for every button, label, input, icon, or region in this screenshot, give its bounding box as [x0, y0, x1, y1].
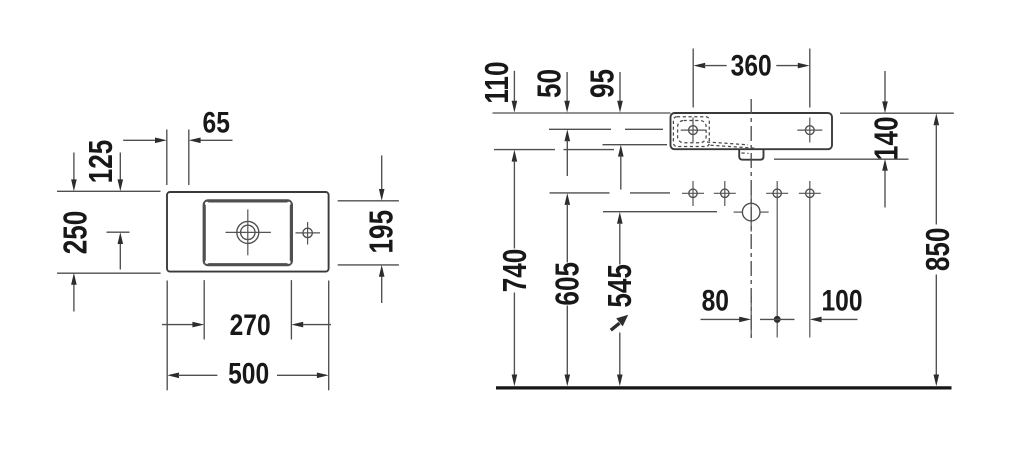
- dim 195 down arrow: [381, 155, 383, 189]
- rim level line left: [493, 112, 671, 114]
- svg-text:80: 80: [702, 283, 729, 317]
- dim 270 extension line B: [290, 280, 292, 339]
- dim 270 extension line A: [203, 280, 205, 339]
- tap crosshair vertical: [307, 222, 309, 245]
- dim 850 lower shaft and floor arrow: [935, 275, 937, 376]
- svg-text:500: 500: [228, 356, 269, 390]
- drain crosshair horizontal: [226, 231, 271, 233]
- dim 545 pointer arrow (diagonal): [611, 323, 620, 330]
- svg-text:605: 605: [550, 262, 587, 306]
- svg-text:545: 545: [602, 264, 639, 308]
- drain outer circle: [237, 221, 259, 243]
- bottom edge extension line left: [57, 272, 161, 274]
- svg-text:50: 50: [532, 69, 569, 98]
- dim 50 down arrow: [566, 72, 568, 102]
- centre line solid at 80 dim: [750, 296, 752, 338]
- dim 65 right arrow: [200, 139, 233, 141]
- tap hole left: circle: [689, 126, 698, 135]
- top edge extension line left: [57, 190, 161, 192]
- dim 605 lower shaft and floor arrow: [566, 306, 568, 376]
- fixing hole 2: [714, 192, 736, 194]
- fixing hole 4: [799, 192, 821, 194]
- hidden bowl bottom line lower (dashed): [711, 145, 756, 148]
- dim 65 extension line A: [166, 130, 168, 186]
- drain tube: [739, 149, 763, 160]
- rim level line right: [840, 112, 954, 114]
- hidden bowl outline inner (dashed): [678, 121, 707, 143]
- dim 100 arrow: [810, 317, 822, 323]
- hidden dash inside drain tube: [742, 152, 749, 154]
- dim 740 up arrow: [512, 150, 518, 162]
- dim 140 up arrow: [882, 159, 888, 171]
- bowl corner notches: [205, 202, 209, 206]
- tap hole right crosshair: [797, 129, 822, 131]
- hidden bowl outline outer (dashed): [673, 117, 709, 147]
- dim 500 right arrow: [277, 374, 318, 376]
- siphon circle side ticks: [734, 211, 743, 213]
- svg-text:850: 850: [920, 228, 957, 272]
- dot stub line: [760, 318, 795, 320]
- dim 360 right arrow: [776, 65, 799, 67]
- drain centre tick: [107, 231, 130, 233]
- floor line: [496, 386, 952, 389]
- bowl depth (95) level line: [603, 144, 668, 146]
- svg-text:740: 740: [497, 249, 534, 293]
- basin inner bowl rect: [204, 201, 291, 265]
- svg-text:270: 270: [230, 308, 271, 342]
- centre line solid through drain circle: [750, 195, 752, 232]
- dim 500 extension line B: [328, 281, 330, 391]
- dim 360 extension line B: [809, 49, 811, 108]
- dim 500 left arrow: [167, 373, 179, 379]
- dim 125 down arrow: [119, 153, 121, 181]
- tap crosshair horizontal: [296, 232, 321, 234]
- dim 605 up arrow: [565, 193, 571, 205]
- svg-text:110: 110: [479, 62, 516, 104]
- svg-text:100: 100: [821, 283, 862, 317]
- dim 250 up arrow: [73, 285, 75, 312]
- bottom edge (740) level line segments: [494, 149, 555, 151]
- dim 545 up arrow: [617, 212, 623, 224]
- vertical centre line (dash-dot): [750, 99, 752, 338]
- dim 360 extension line A: [692, 49, 694, 108]
- svg-text:195: 195: [363, 210, 400, 254]
- hidden bowl bottom line upper (dashed): [707, 142, 748, 145]
- drain outlet bottom line: [774, 158, 909, 160]
- drain crosshair vertical: [247, 209, 249, 255]
- svg-text:140: 140: [869, 117, 906, 161]
- dim 545 lower shaft and floor arrow: [619, 333, 621, 376]
- tap hole left crosshair: [681, 129, 706, 131]
- basin outer rim rect: [167, 192, 329, 272]
- fixing hole 1: [682, 192, 704, 194]
- dim 125 up arrow: [119, 243, 121, 270]
- dim 50 up arrow: [565, 129, 571, 141]
- dim 195 up arrow: [381, 277, 383, 304]
- siphon (545) level line: [603, 211, 717, 213]
- dim 80/100 reference dot: [774, 316, 781, 323]
- drain inner circle: [241, 225, 255, 239]
- svg-text:95: 95: [585, 69, 622, 98]
- fixing hole 3: [766, 192, 788, 194]
- fixing holes (605) level line segments: [550, 192, 610, 194]
- siphon circle: [742, 203, 760, 221]
- tap hole right: circle: [805, 126, 814, 135]
- dim 110 down arrow: [513, 71, 515, 102]
- svg-text:65: 65: [203, 105, 230, 139]
- dim 140 down arrow: [884, 71, 886, 102]
- dim 360 left arrow: [693, 63, 705, 69]
- dim 740 lower shaft and floor arrow: [513, 293, 515, 376]
- dim 850 up arrow: [934, 113, 940, 125]
- dim 500 extension line A: [166, 281, 168, 391]
- dim 95 up arrow: [618, 145, 624, 157]
- dim 195 bottom line: [338, 264, 399, 266]
- tap level line segments: [549, 128, 611, 130]
- dim 95 down arrow: [619, 72, 621, 102]
- dim 195 top line: [338, 200, 399, 202]
- dim 270 right arrow: [302, 324, 331, 326]
- svg-text:250: 250: [58, 211, 95, 255]
- tap hole circle: [303, 228, 312, 237]
- dim 80 arrow: [701, 318, 741, 320]
- svg-text:360: 360: [731, 48, 772, 82]
- dim 65 extension line B: [188, 130, 190, 186]
- svg-text:125: 125: [83, 140, 120, 184]
- dim 270 left arrow: [162, 324, 194, 326]
- basin body rect: [671, 113, 833, 149]
- dim 65 left arrow: [123, 139, 156, 141]
- dim 250 down arrow: [73, 153, 75, 181]
